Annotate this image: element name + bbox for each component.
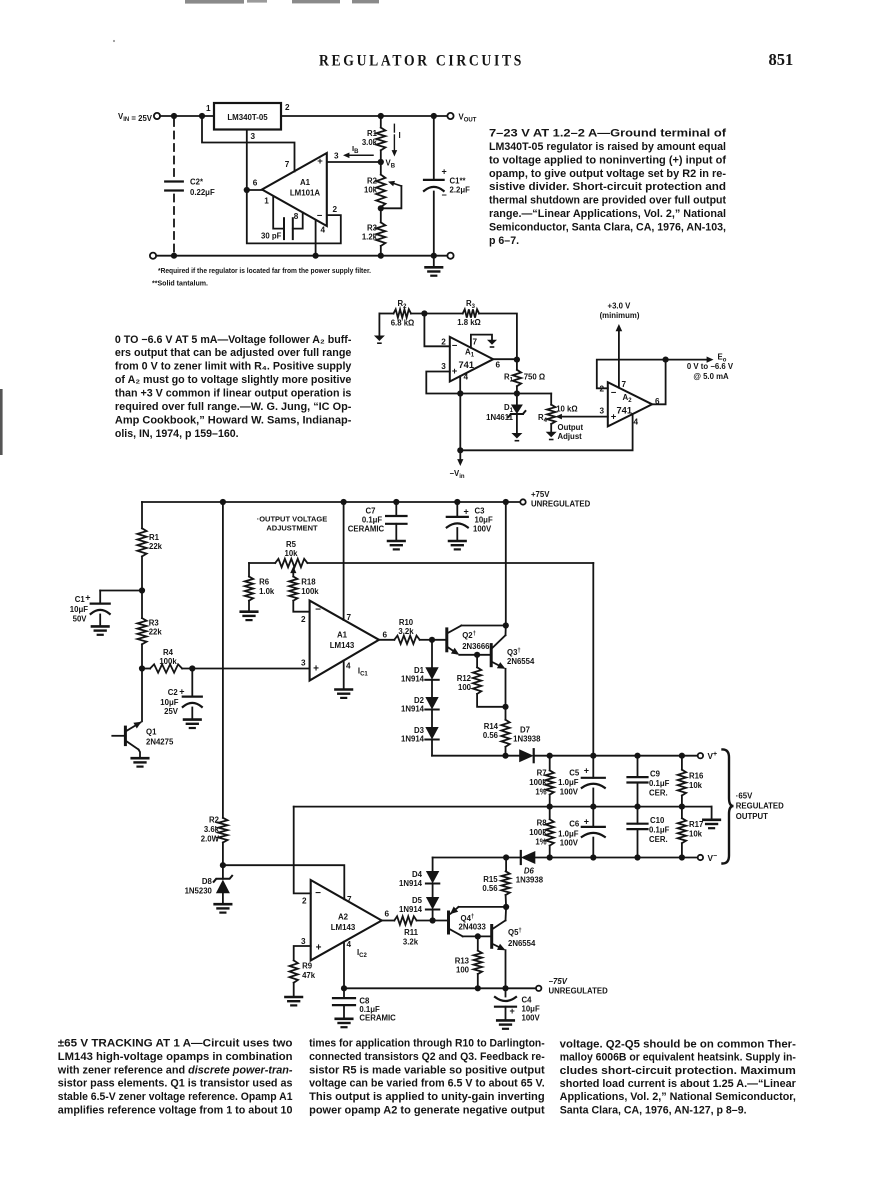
capacitor C8 0.1uF (343, 988, 345, 998)
node rail pin7col (341, 499, 347, 505)
svg-text:Amp Cookbook,” Howard W. Sams,: Amp Cookbook,” Howard W. Sams, Indianap- (115, 414, 352, 426)
svg-text:1: 1 (206, 104, 211, 113)
svg-text:R6: R6 (259, 578, 270, 587)
svg-text:olis, IN, 1974, p 159–160.: olis, IN, 1974, p 159–160. (115, 428, 239, 440)
svg-text:1%: 1% (535, 788, 546, 797)
svg-text:sistor R5 is made variable so: sistor R5 is made variable so positive o… (309, 1064, 545, 1076)
svg-text:C5: C5 (569, 768, 580, 777)
op-amp A1 741 (450, 337, 493, 382)
ground R2 left (378, 314, 380, 336)
node A1 out (429, 637, 435, 643)
svg-text:of A₂ must go to voltage sligh: of A₂ must go to voltage slightly more p… (115, 374, 352, 386)
capacitor C1 10uF 50V (100, 590, 142, 592)
svg-text:+: + (316, 943, 322, 954)
svg-text:D5: D5 (412, 896, 423, 905)
resistor R3 1.2k (380, 208, 382, 222)
node inverting input feed (421, 310, 427, 316)
svg-text:Santa Clara, CA, 1976, AN-127,: Santa Clara, CA, 1976, AN-127, p 8–9. (560, 1104, 747, 1116)
svg-text:C2: C2 (168, 688, 179, 697)
svg-text:10μF: 10μF (522, 1005, 540, 1014)
svg-text:·65V: ·65V (736, 791, 753, 800)
resistor R1 22k (141, 502, 143, 528)
svg-text:R13: R13 (455, 957, 470, 966)
svg-text:22k: 22k (149, 628, 163, 637)
svg-text:851: 851 (769, 50, 794, 69)
wire output Eo (666, 359, 709, 361)
resistor R17 10k (681, 807, 683, 819)
node R1 bottom (514, 390, 520, 396)
svg-text:times for application through: times for application through R10 to Dar… (309, 1038, 545, 1050)
svg-text:LM101A: LM101A (290, 189, 321, 198)
wire pin6 stub (247, 189, 262, 191)
node C10 bottom (634, 854, 640, 860)
svg-text:100: 100 (456, 966, 470, 975)
svg-text:1N5230: 1N5230 (185, 886, 213, 895)
svg-text:R14: R14 (484, 722, 499, 731)
svg-text:30 pF: 30 pF (261, 232, 282, 241)
resistor R2 3.6k 2.0W (218, 818, 227, 843)
wire Q3 emitter down (505, 669, 507, 707)
svg-text:7: 7 (622, 380, 627, 389)
pin 4 wire (315, 220, 317, 256)
svg-text:REGULATOR CIRCUITS: REGULATOR CIRCUITS (319, 51, 524, 70)
svg-text:power opamp A2 to generate neg: power opamp A2 to generate negative outp… (309, 1104, 545, 1116)
node R16-R17 (679, 804, 685, 810)
capacitor C2 10uF 25V (191, 669, 193, 697)
brace regulated output (723, 749, 734, 863)
svg-text:10k: 10k (689, 781, 703, 790)
resistor R10 3.2k (379, 639, 394, 641)
capacitor C2 (165, 180, 183, 182)
svg-text:10μF: 10μF (475, 516, 493, 525)
svg-text:+3.0 V: +3.0 V (608, 302, 632, 311)
capacitor C6 1.0uF (592, 807, 594, 827)
svg-text:10 kΩ: 10 kΩ (556, 404, 577, 413)
wire to A2 pin7 (223, 865, 344, 899)
transistor Q3 2N6554 (490, 645, 493, 666)
node C6 bottom (590, 854, 596, 860)
svg-text:2: 2 (285, 103, 290, 112)
op-amp A1 LM101A (262, 153, 327, 226)
svg-text:CER.: CER. (649, 835, 668, 844)
wire A2 feedback loop (597, 360, 666, 405)
wire box pin3 down to opamp output (246, 130, 248, 191)
node C2 junction (189, 665, 195, 671)
node C2 bottom (171, 253, 177, 259)
svg-text:2.0W: 2.0W (201, 835, 220, 844)
wire pin7 to ground (471, 335, 492, 348)
svg-text:6: 6 (496, 361, 501, 370)
resistor R12 100 (476, 655, 478, 668)
svg-text:@ 5.0 mA: @ 5.0 mA (693, 372, 729, 381)
svg-text:3: 3 (599, 407, 604, 416)
capacitor 30pF (283, 218, 285, 239)
scan artifact bars top edge (185, 0, 244, 4)
capacitor C7 0.1uF (395, 502, 397, 516)
svg-text:CERAMIC: CERAMIC (348, 525, 385, 534)
svg-text:1.0μF: 1.0μF (558, 829, 579, 838)
svg-text:voltage. Q2-Q5 should be on co: voltage. Q2-Q5 should be on common Ther- (560, 1039, 797, 1051)
resistor R4 100k (142, 668, 150, 670)
node C1 junction (139, 587, 145, 593)
svg-text:1.0μF: 1.0μF (558, 778, 579, 787)
svg-text:±65 V TRACKING AT 1 A—Circuit: ±65 V TRACKING AT 1 A—Circuit uses two (58, 1038, 293, 1050)
svg-text:Applications, Vol. 2,” Nationa: Applications, Vol. 2,” National Semicond… (560, 1091, 796, 1103)
svg-text:R18: R18 (301, 578, 316, 587)
svg-text:2N4275: 2N4275 (146, 738, 174, 747)
svg-text:required over full range.—W. G: required over full range.—W. G. Jung, “I… (115, 401, 352, 413)
svg-text:(minimum): (minimum) (600, 311, 640, 320)
wire to Q2 base (432, 639, 447, 641)
wire dashed C2 to ground rail (173, 195, 175, 254)
svg-text:−: − (315, 605, 321, 616)
capacitor C1 2.2uF (433, 116, 435, 180)
svg-text:+: + (313, 664, 319, 675)
resistor R8 100k 1% (549, 807, 551, 820)
svg-text:C1**: C1** (450, 177, 467, 186)
svg-text:3: 3 (251, 132, 256, 141)
svg-text:CER.: CER. (649, 789, 668, 798)
wire V- rail (433, 857, 521, 859)
svg-text:opamp, to give output voltage: opamp, to give output voltage set by R2 … (489, 168, 726, 180)
-Vin arrow (459, 450, 461, 461)
svg-text:6: 6 (253, 179, 258, 188)
svg-text:10k: 10k (284, 549, 298, 558)
svg-text:2N6554: 2N6554 (507, 657, 535, 666)
node R16 top (679, 753, 685, 759)
svg-text:R1: R1 (149, 533, 160, 542)
svg-text:1N914: 1N914 (401, 675, 425, 684)
svg-text:10μF: 10μF (160, 698, 178, 707)
svg-text:REGULATED: REGULATED (736, 802, 784, 811)
svg-text:range.—“Linear Applications, V: range.—“Linear Applications, Vol. 2,” Na… (489, 208, 726, 220)
svg-text:3: 3 (301, 659, 306, 668)
capacitor C10 0.1uF (637, 807, 639, 824)
svg-text:R3: R3 (367, 224, 378, 233)
svg-text:−: − (315, 888, 321, 899)
svg-text:100V: 100V (560, 839, 579, 848)
svg-text:sistor pass elements. Q1 is tr: sistor pass elements. Q1 is transistor u… (58, 1078, 293, 1090)
node C5-C6 (590, 804, 596, 810)
svg-text:4: 4 (347, 940, 352, 949)
svg-text:+: + (179, 686, 184, 696)
svg-text:1N914: 1N914 (399, 879, 423, 888)
svg-text:**Solid tantalum.: **Solid tantalum. (152, 279, 208, 288)
svg-text:C4: C4 (522, 996, 533, 1005)
svg-text:LM143 high-voltage opamps in c: LM143 high-voltage opamps in combination (58, 1051, 293, 1063)
svg-text:A1: A1 (337, 631, 348, 640)
svg-text:C9: C9 (650, 770, 661, 779)
terminal ground left (150, 253, 156, 259)
diode D1 1N4611 zener (516, 394, 518, 405)
svg-text:10k: 10k (689, 830, 703, 839)
op-amp A2 LM143 (311, 880, 382, 960)
scan artifact speck (113, 40, 115, 42)
node C9 top (634, 753, 640, 759)
svg-text:+: + (464, 506, 469, 516)
svg-text:LM143: LM143 (331, 923, 356, 932)
node C1 top (431, 113, 437, 119)
transistor Q1 2N4275 (141, 669, 143, 722)
svg-text:2N3666: 2N3666 (462, 642, 490, 651)
svg-text:R12: R12 (457, 674, 472, 683)
svg-text:7: 7 (347, 895, 352, 904)
svg-text:0.56: 0.56 (482, 884, 498, 893)
node V+ D7 (502, 753, 508, 759)
node C8 (341, 985, 347, 991)
terminal ground right (447, 253, 453, 259)
svg-text:to voltage applied to noninver: to voltage applied to noninverting (+) i… (489, 154, 726, 166)
wire output rail (281, 115, 448, 117)
svg-text:2: 2 (333, 205, 338, 214)
node A2 output (663, 357, 669, 363)
wire R5 feedback to V+ (592, 563, 594, 756)
wire V- rail right (535, 857, 697, 859)
svg-text:R1: R1 (367, 129, 378, 138)
R5 wiper arrow (292, 571, 294, 577)
wire pin4 down (343, 942, 345, 989)
svg-text:UNREGULATED: UNREGULATED (549, 987, 609, 996)
svg-text:D4: D4 (412, 870, 423, 879)
svg-text:R9: R9 (302, 962, 313, 971)
svg-text:1N4611: 1N4611 (486, 413, 514, 422)
node R11-D5-Q4 (430, 917, 436, 923)
wire -75V rail (344, 987, 536, 989)
ground symbol (433, 256, 435, 267)
terminal V+ (698, 753, 703, 758)
op-amp A1 LM143 (310, 601, 379, 681)
svg-text:R4: R4 (163, 648, 174, 657)
resistor R15 0.56 (505, 858, 507, 872)
wire V+ from diode chain (432, 755, 519, 757)
svg-text:*Required if the regulator is: *Required if the regulator is located fa… (158, 266, 371, 275)
svg-text:22k: 22k (149, 542, 163, 551)
svg-text:CERAMIC: CERAMIC (359, 1014, 396, 1023)
wire mid-rail to pin2 (294, 807, 311, 894)
svg-text:This output is applied to unit: This output is applied to unity-gain inv… (309, 1091, 545, 1103)
node R3 bottom (378, 253, 384, 259)
svg-text:47k: 47k (302, 971, 316, 980)
svg-text:R3: R3 (149, 619, 160, 628)
svg-text:amplifies reference voltage fr: amplifies reference voltage from 1 to ab… (58, 1104, 293, 1116)
svg-text:+: + (317, 156, 323, 167)
svg-text:1%: 1% (535, 838, 546, 847)
svg-text:4: 4 (634, 418, 639, 427)
wire input rail (160, 115, 214, 117)
svg-text:−: − (317, 211, 323, 222)
node R2-D8 (220, 862, 226, 868)
svg-text:1N3938: 1N3938 (516, 875, 544, 884)
svg-text:shorted load current is about: shorted load current is about 1.25 A.—“L… (560, 1078, 796, 1090)
wire R5 right to feedback column (307, 562, 593, 564)
svg-text:R8: R8 (537, 819, 548, 828)
resistor R13 100 (477, 936, 479, 950)
svg-text:0 V to −6.6 V: 0 V to −6.6 V (687, 362, 734, 371)
terminal Vout (447, 113, 453, 119)
wire top net R2-R3 (379, 313, 393, 315)
svg-text:4: 4 (346, 661, 351, 670)
svg-text:R11: R11 (404, 928, 419, 937)
terminal +75V (520, 499, 525, 504)
capacitor C5 1.0uF (592, 756, 594, 778)
node C5 top (590, 753, 596, 759)
svg-text:2.2μF: 2.2μF (450, 186, 471, 195)
svg-text:750 Ω: 750 Ω (524, 373, 545, 382)
svg-text:R5: R5 (286, 540, 297, 549)
svg-text:stable 6.5-V zener voltage ref: stable 6.5-V zener voltage reference. Op… (58, 1091, 293, 1103)
svg-text:A2: A2 (338, 913, 349, 922)
svg-text:6: 6 (385, 910, 390, 919)
diode D1 1N914 (431, 640, 433, 668)
svg-text:0.22μF: 0.22μF (190, 188, 215, 197)
resistor R2 6.8k (394, 309, 412, 317)
svg-text:·OUTPUT VOLTAGE: ·OUTPUT VOLTAGE (257, 515, 328, 524)
terminal -75V (536, 986, 541, 991)
svg-text:1N914: 1N914 (399, 905, 423, 914)
svg-text:3.6k: 3.6k (204, 825, 220, 834)
svg-text:2: 2 (441, 338, 446, 347)
resistor R18 100k (289, 577, 297, 601)
svg-text:4: 4 (321, 226, 326, 235)
wire pin7 to +75V (343, 502, 345, 620)
potentiometer R4 10k (550, 394, 552, 405)
wire R3 to output node (479, 314, 517, 360)
svg-text:2N6554: 2N6554 (508, 939, 536, 948)
svg-text:−75V: −75V (549, 977, 568, 986)
scan artifact left edge bar (0, 389, 3, 455)
node -Vin tap (457, 390, 463, 396)
diode D2 1N914 (431, 680, 433, 697)
wire D5 to node (432, 910, 434, 921)
svg-text:10μF: 10μF (70, 605, 88, 614)
svg-text:p 6–7.: p 6–7. (489, 235, 519, 247)
svg-text:7–23 V AT 1.2–2 A—Ground termi: 7–23 V AT 1.2–2 A—Ground terminal of (489, 128, 727, 140)
node R15 bottom (503, 904, 509, 910)
svg-text:+: + (584, 816, 589, 826)
wire R4 wiper to pin 3 (558, 416, 608, 418)
svg-text:6.8 kΩ: 6.8 kΩ (391, 319, 415, 328)
svg-text:+: + (85, 593, 90, 603)
node R1 top (378, 113, 384, 119)
node Q2 emitter R12 (474, 652, 480, 658)
R2 wiper (381, 186, 402, 208)
svg-text:connected transistors Q2 and Q: connected transistors Q2 and Q3. Feedbac… (309, 1051, 545, 1063)
resistor R11 3.2k (382, 920, 395, 922)
diode D7 1N3938 (519, 749, 534, 762)
svg-text:50V: 50V (73, 615, 88, 624)
svg-text:Q1: Q1 (146, 728, 157, 737)
svg-text:7: 7 (473, 338, 478, 347)
capacitor C9 0.1uF (637, 756, 639, 777)
svg-text:UNREGULATED: UNREGULATED (531, 500, 591, 509)
regulator U1 LM340T-05 box (214, 103, 281, 130)
svg-text:7: 7 (347, 613, 352, 622)
svg-text:+: + (584, 765, 589, 775)
svg-text:0.1μF: 0.1μF (649, 826, 670, 835)
svg-text:741: 741 (459, 360, 475, 370)
wire mid rail (294, 806, 712, 808)
node VB (378, 159, 384, 165)
svg-text:2: 2 (301, 615, 306, 624)
pot R5 10k (249, 562, 275, 564)
node pin4 bottom (313, 253, 319, 259)
wire negative rail (460, 394, 632, 451)
diode D6 1N3938 (521, 851, 536, 864)
wire feedback rectangle (247, 190, 341, 243)
transistor Q4 2N4033 (447, 912, 450, 933)
node R3-R4 (139, 665, 145, 671)
svg-text:R15: R15 (483, 875, 498, 884)
svg-text:25V: 25V (164, 707, 179, 716)
op-amp A2 741 (608, 382, 652, 426)
wire Q5 emitter to rail (505, 950, 507, 988)
node input-pin7 (199, 113, 205, 119)
wire chain to V+ line (431, 740, 433, 756)
svg-text:C1: C1 (75, 595, 86, 604)
wire pin3 input (327, 161, 381, 163)
svg-text:4: 4 (464, 373, 469, 382)
svg-text:R16: R16 (689, 772, 704, 781)
resistor R7 100k 1% (549, 756, 551, 771)
svg-text:100V: 100V (560, 788, 579, 797)
wire R2 to R3 (411, 313, 463, 315)
svg-text:sistive divider. Short-circuit: sistive divider. Short-circuit protectio… (489, 181, 726, 193)
svg-text:0 TO −6.6 V AT 5 mA—Voltage fo: 0 TO −6.6 V AT 5 mA—Voltage follower A₂ … (115, 334, 352, 346)
diode D4 1N914 (432, 858, 434, 872)
svg-text:+75V: +75V (531, 490, 550, 499)
resistor R1 750 (516, 360, 518, 370)
svg-text:1.8 kΩ: 1.8 kΩ (457, 318, 481, 327)
diode D3 1N914 (431, 710, 433, 728)
svg-text:100k: 100k (529, 828, 547, 837)
svg-text:−: − (611, 388, 617, 399)
svg-text:0.1μF: 0.1μF (649, 779, 670, 788)
resistor R6 1.0k (248, 563, 250, 577)
svg-text:cludes short-circuit protectio: cludes short-circuit protection. Maximum (560, 1065, 796, 1077)
wire +75V top rail (142, 501, 520, 503)
svg-text:8: 8 (294, 212, 299, 221)
svg-text:100V: 100V (522, 1014, 541, 1023)
svg-text:Output: Output (558, 423, 584, 432)
svg-text:3.2k: 3.2k (403, 938, 419, 947)
wire to pin 3 (182, 668, 310, 670)
node R13 bottom (475, 985, 481, 991)
svg-text:1: 1 (264, 197, 269, 206)
resistor R16 10k (681, 756, 683, 770)
svg-text:Semiconductor, Santa Clara, CA: Semiconductor, Santa Clara, CA, 1976, AN… (489, 221, 726, 233)
svg-text:LM143: LM143 (330, 641, 355, 650)
resistor R1 3.0k (380, 115, 382, 127)
svg-text:thermal shutdown are provided: thermal shutdown are provided over full … (489, 195, 726, 207)
svg-text:3.0k: 3.0k (362, 138, 378, 147)
svg-text:LM340T-05: LM340T-05 (227, 113, 268, 122)
svg-text:D7: D7 (520, 725, 530, 734)
node R17 bottom (679, 854, 685, 860)
svg-text:A1: A1 (300, 178, 311, 187)
svg-text:C3: C3 (475, 506, 486, 515)
current Ib arrow (346, 154, 374, 156)
node Q4 collector R13 (475, 933, 481, 939)
diode D5 1N914 (432, 884, 434, 898)
node R7 top (547, 753, 553, 759)
svg-text:100: 100 (458, 683, 472, 692)
svg-text:R2: R2 (367, 177, 378, 186)
svg-text:Adjust: Adjust (558, 432, 583, 441)
node collectors (503, 622, 509, 628)
svg-text:1N914: 1N914 (401, 735, 425, 744)
svg-text:3: 3 (441, 362, 446, 371)
svg-text:741: 741 (617, 406, 633, 416)
